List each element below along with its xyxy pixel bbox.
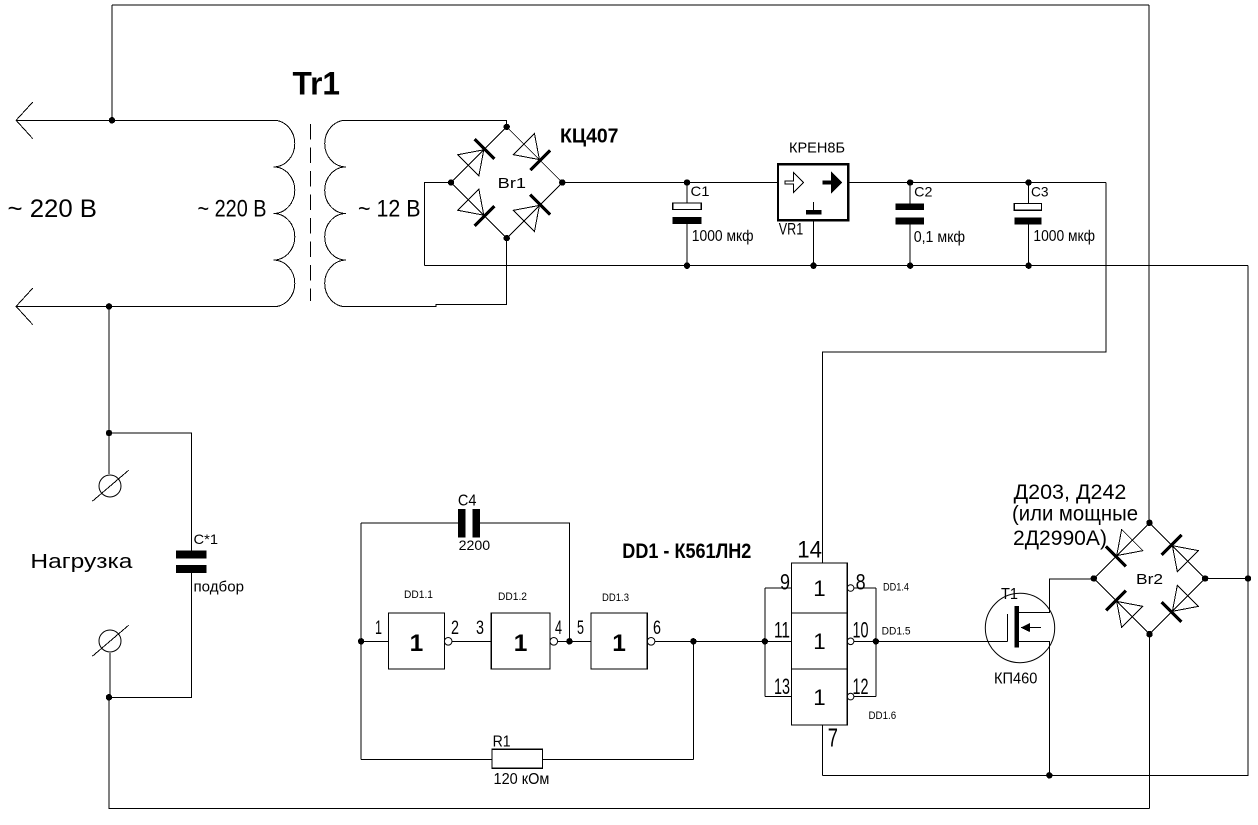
node T1 source junction	[1046, 772, 1052, 778]
node left bus	[762, 638, 768, 644]
diode Br2 bottom-right	[1161, 585, 1198, 622]
node C2 bottom	[907, 263, 913, 269]
wire ground rail y=265.7	[425, 265, 1249, 267]
svg-text:DD1.1: DD1.1	[404, 589, 433, 601]
svg-text:~ 12 В: ~ 12 В	[358, 196, 421, 223]
gate DD1.1 box	[388, 613, 444, 669]
svg-text:(или мощные: (или мощные	[1012, 503, 1138, 526]
bridge Br1 diamond	[451, 127, 562, 238]
wire C4 top right	[480, 523, 570, 641]
svg-text:1000 мкф: 1000 мкф	[1033, 228, 1095, 245]
wire lower AC line y=306.4	[16, 305, 273, 307]
svg-text:11: 11	[774, 618, 790, 643]
svg-text:Нагрузка: Нагрузка	[30, 551, 133, 573]
capacitor C3	[1028, 183, 1030, 266]
node Br2 rail corner	[1245, 575, 1251, 581]
svg-text:DD1.4: DD1.4	[883, 582, 909, 594]
wire secondary bottom to bridge	[346, 238, 507, 306]
diode Br1 top-left	[458, 138, 495, 175]
capacitor C3 top plate hollow	[1014, 204, 1041, 211]
diode Br1 top-right	[513, 133, 550, 170]
gate DD1.2 output circle	[550, 638, 558, 646]
T1 drain link	[1019, 579, 1094, 613]
svg-text:C*1: C*1	[194, 531, 219, 547]
transformer Tr1 primary winding	[274, 120, 295, 306]
node C2 top	[907, 179, 913, 185]
wire C4 top left	[361, 522, 458, 524]
gate DD1.3 output circle	[647, 638, 655, 646]
svg-text:3: 3	[476, 617, 484, 639]
resistor R1	[361, 758, 492, 760]
wire plus rail right of VR1	[848, 182, 1106, 184]
bridge Br2 top feed	[1148, 5, 1150, 523]
T1 channel bar	[1014, 606, 1019, 647]
wire load bottom branch	[109, 573, 192, 697]
capacitor C1	[686, 183, 688, 266]
diode Br2 top-right	[1161, 534, 1198, 571]
node Br2 right	[1202, 575, 1208, 581]
svg-text:4: 4	[555, 617, 562, 639]
svg-text:~ 220 В: ~ 220 В	[198, 196, 267, 223]
transistor T1	[985, 593, 1054, 662]
wire C4 left vertical	[360, 523, 362, 759]
svg-text:1000 мкф: 1000 мкф	[692, 228, 754, 245]
arrow lower AC	[16, 288, 33, 325]
VR1 input open arrow	[785, 173, 804, 193]
svg-text:DD1.5: DD1.5	[882, 626, 911, 638]
svg-text:Br1: Br1	[498, 175, 526, 192]
capacitor C1 top plate hollow	[673, 203, 702, 209]
svg-text:120 кОм: 120 кОм	[494, 771, 550, 788]
transformer Tr1 secondary winding	[325, 120, 346, 306]
bridge Br2 diamond	[1094, 523, 1205, 634]
bridge Br2 bottom feed	[1149, 634, 1151, 808]
capacitor C2 top plate	[895, 204, 924, 211]
svg-text:подбор: подбор	[194, 579, 245, 596]
gate DD1.2 box	[491, 613, 550, 669]
svg-text:КЦ407: КЦ407	[560, 126, 619, 148]
svg-text:1: 1	[813, 576, 825, 601]
svg-text:R1: R1	[493, 733, 511, 750]
svg-text:Д203, Д242: Д203, Д242	[1014, 481, 1127, 504]
svg-text:2: 2	[451, 617, 459, 639]
svg-text:C3: C3	[1031, 184, 1049, 200]
capacitor C2	[909, 183, 911, 266]
node Br2 left	[1091, 575, 1097, 581]
diode Br1 bottom-left	[458, 189, 495, 226]
right output bus	[854, 588, 876, 697]
svg-text:12: 12	[853, 674, 869, 699]
capacitor C3 bottom plate	[1014, 217, 1041, 224]
svg-text:Tr1: Tr1	[293, 65, 341, 101]
svg-text:13: 13	[774, 674, 790, 699]
svg-text:1: 1	[813, 629, 825, 654]
wire Vcc to DD1 pin 14	[823, 183, 1106, 564]
node Br2 top	[1146, 520, 1152, 526]
svg-text:7: 7	[828, 723, 838, 753]
T1 source link	[1019, 641, 1049, 775]
wire Br1 left node to ground rail	[425, 183, 452, 266]
capacitor C4 right plate	[472, 509, 480, 538]
T1 substrate arrow	[1021, 623, 1031, 632]
VR1 output solid arrow	[823, 173, 842, 193]
wire gate drive to T1	[876, 640, 1008, 642]
svg-text:6: 6	[653, 617, 661, 639]
node C1 top	[684, 179, 690, 185]
gate DD1.5 box	[792, 613, 848, 669]
gate DD1.4 box	[792, 563, 848, 613]
diode Br1 bottom-right	[513, 194, 550, 231]
svg-text:Br2: Br2	[1136, 571, 1163, 588]
transformer core dashed line	[310, 124, 312, 301]
wire top rail y=5	[112, 4, 1149, 6]
terminal upper slash	[92, 470, 128, 501]
gate DD1.4 output circle	[847, 585, 854, 592]
svg-text:C4: C4	[458, 493, 477, 510]
wire gate2-gate3	[558, 640, 591, 642]
node C1 bottom	[684, 263, 690, 269]
node VR1 pin	[810, 263, 816, 269]
svg-text:DD1 - К561ЛН2: DD1 - К561ЛН2	[622, 540, 751, 563]
node C3 top	[1025, 179, 1031, 185]
wire upper AC line y=120	[16, 119, 273, 121]
svg-text:5: 5	[577, 617, 584, 639]
svg-text:C1: C1	[691, 183, 710, 199]
VR1 ground pin	[813, 220, 815, 265]
node Br1 right	[559, 179, 565, 185]
svg-text:8: 8	[856, 570, 866, 595]
gate DD1.5 output circle	[847, 638, 854, 645]
VR1 ground symbol	[813, 202, 815, 210]
svg-text:КРЕН8Б: КРЕН8Б	[789, 141, 845, 157]
wire load top branch	[109, 306, 192, 550]
node Br1 top	[504, 124, 510, 130]
gate DD1.6 box	[792, 669, 848, 725]
terminal lower slash	[92, 625, 128, 656]
gate DD1.6 output circle	[847, 693, 854, 700]
node gate1 input	[358, 638, 364, 644]
svg-text:DD1.2: DD1.2	[498, 591, 527, 603]
capacitor C2 bottom plate	[895, 217, 924, 224]
wire Br2 right node to rail	[1205, 578, 1248, 580]
svg-text:14: 14	[797, 537, 822, 564]
wire plus rail y=182.5	[562, 182, 778, 184]
svg-text:0,1 мкф: 0,1 мкф	[914, 229, 966, 246]
svg-text:1: 1	[612, 630, 626, 657]
wire left drop x=112	[111, 5, 113, 120]
node right bus	[873, 638, 879, 644]
left input bus	[765, 588, 792, 697]
wire bottom rail	[109, 697, 1150, 808]
svg-text:VR1: VR1	[779, 221, 803, 239]
svg-text:DD1.3: DD1.3	[602, 592, 629, 604]
capacitor C*1 bottom plate	[176, 565, 207, 573]
svg-text:1: 1	[514, 630, 528, 657]
svg-text:1: 1	[410, 630, 424, 657]
gate DD1.3 box	[591, 613, 647, 669]
svg-text:9: 9	[780, 570, 790, 595]
terminal upper circle	[108, 433, 110, 474]
wire gate1-gate2	[452, 640, 491, 642]
svg-text:КП460: КП460	[994, 671, 1037, 688]
node junction upper AC	[109, 117, 115, 123]
capacitor C1 bottom plate	[672, 217, 701, 224]
svg-text:~ 220 В: ~ 220 В	[8, 195, 98, 223]
node C4 tap	[566, 638, 572, 644]
node Br2 bottom	[1146, 631, 1152, 637]
svg-text:C2: C2	[914, 184, 933, 200]
T1 gate line	[1006, 614, 1008, 641]
wire secondary top to bridge	[346, 120, 507, 127]
svg-text:2Д2990А): 2Д2990А)	[1013, 527, 1107, 550]
svg-text:10: 10	[853, 618, 869, 643]
node load top	[106, 430, 112, 436]
svg-text:1: 1	[813, 685, 825, 710]
svg-text:T1: T1	[1001, 586, 1018, 603]
regulator VR1 box	[778, 164, 848, 220]
node load bottom	[106, 694, 112, 700]
gate DD1.1 output circle	[444, 638, 452, 646]
svg-text:1: 1	[375, 617, 382, 639]
arrow upper AC	[16, 102, 33, 139]
node Br1 bottom	[504, 235, 510, 241]
node Br1 left	[448, 179, 454, 185]
wire gate3 output to bus	[655, 640, 792, 642]
capacitor C*1 top plate	[176, 551, 207, 559]
wire pin 7	[822, 725, 824, 775]
diode Br2 top-left	[1105, 529, 1142, 566]
node C3 bottom	[1025, 263, 1031, 269]
wire source rail y=775	[823, 266, 1248, 776]
terminal lower circle	[99, 630, 121, 652]
diode Br2 bottom-left	[1105, 590, 1142, 627]
svg-text:2200: 2200	[459, 537, 491, 553]
svg-text:DD1.6: DD1.6	[869, 710, 897, 722]
node junction lower AC	[106, 303, 112, 309]
wire gate1 input	[361, 640, 388, 642]
node R1 tap	[690, 638, 696, 644]
capacitor C4 left plate	[458, 509, 466, 538]
